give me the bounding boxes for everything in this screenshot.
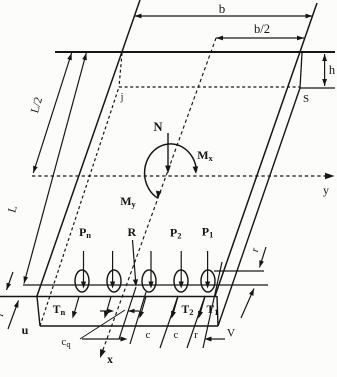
svg-text:u: u [22,323,29,337]
svg-text:c: c [174,329,179,341]
svg-text:b/2: b/2 [254,22,270,36]
svg-text:b: b [219,1,226,16]
svg-text:N: N [153,120,162,134]
svg-text:R: R [127,225,136,239]
svg-text:x: x [107,354,113,366]
svg-text:j: j [120,92,124,103]
svg-text:r: r [194,329,198,341]
svg-text:V: V [227,328,236,340]
svg-text:S: S [303,93,309,105]
svg-text:h: h [329,63,336,77]
svg-text:y: y [323,183,329,197]
svg-text:c: c [146,329,151,341]
